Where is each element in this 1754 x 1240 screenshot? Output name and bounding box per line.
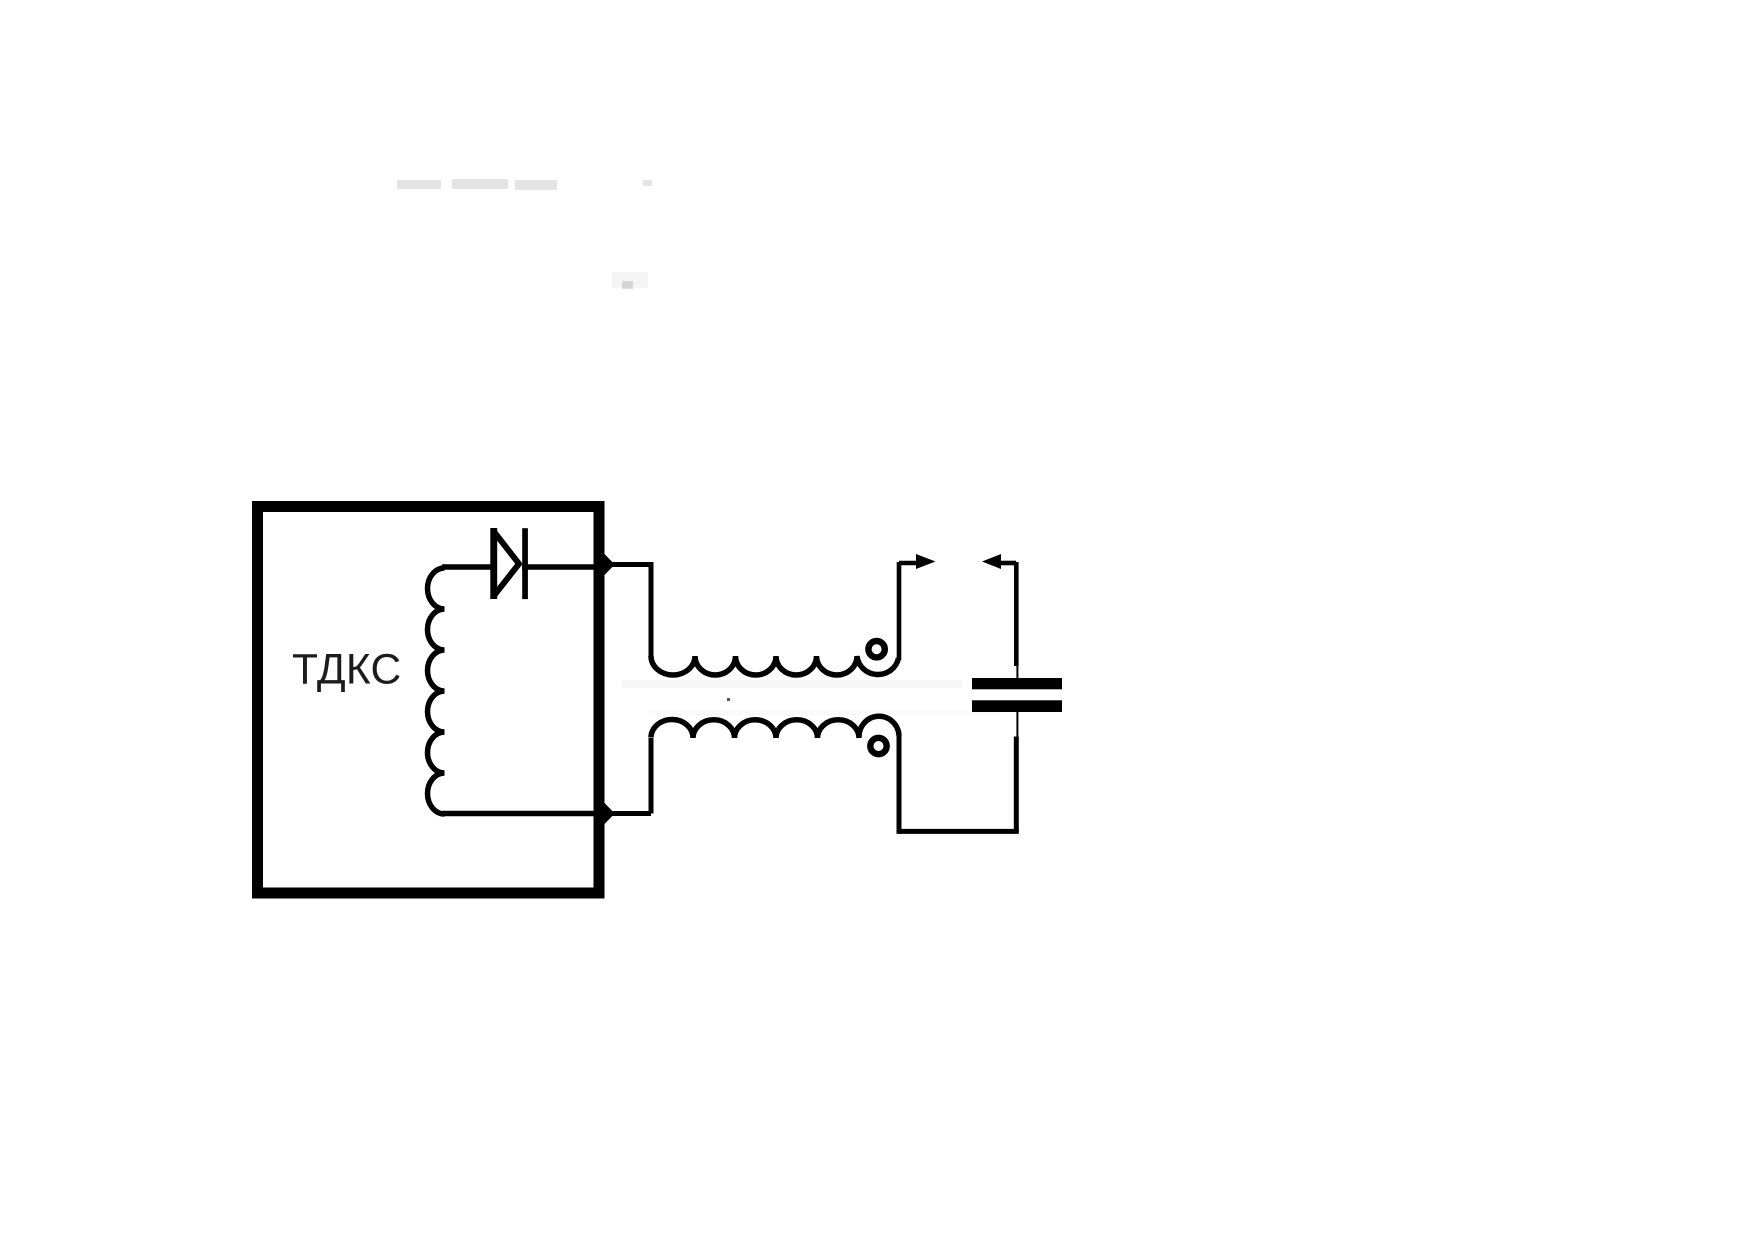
pin arrow top (box exit) [603, 553, 615, 577]
faint smudge artifact top [397, 179, 652, 190]
capacitor C1 top plate [972, 678, 1062, 689]
transformer box ТДКС [258, 507, 600, 894]
diode triangle edges [494, 532, 519, 596]
primary winding L1 (vertical coil in box) [428, 568, 445, 814]
diode VD1 [490, 528, 497, 599]
arrowhead left connector (pointing right) [916, 554, 936, 569]
thin lead from cap bottom plate [1016, 711, 1018, 738]
terminal dot bottom coil [870, 738, 886, 754]
wire coil-top to diode anode [442, 564, 492, 570]
diode cathode bar [522, 528, 528, 599]
wire riser top coil to left arrow corner [897, 562, 902, 660]
wire cathode to box edge [522, 564, 600, 570]
thin lead to cap top plate [1016, 664, 1018, 679]
wire box to top coil corner [604, 565, 651, 658]
wire bottom rail [899, 829, 1019, 834]
faint smudge artifact mid [612, 272, 648, 289]
wire riser to bottom coil [649, 738, 654, 814]
wire capacitor bottom drop [1014, 737, 1019, 832]
faint speckle streaks between coils [622, 680, 1000, 715]
wire right arrow arm [1000, 561, 1016, 566]
arrowhead right connector (pointing left) [982, 554, 1001, 569]
wire box to bottom coil corner [604, 811, 651, 816]
wire coil-bottom to box edge (inside) [442, 811, 600, 817]
terminal dot top coil [868, 641, 884, 657]
capacitor C1 bottom plate [972, 700, 1062, 712]
horizontal deflection coil L2 (top) [651, 656, 899, 675]
wire left arrow arm [899, 561, 917, 566]
vertical deflection coil L3 (bottom) [651, 716, 899, 738]
svg-text:ТДКС: ТДКС [292, 647, 402, 694]
wire riser right arrow corner to capacitor top [1014, 562, 1019, 666]
wire riser bottom rail to bottom coil [897, 734, 902, 834]
pin arrow bottom (box exit) [603, 802, 615, 826]
